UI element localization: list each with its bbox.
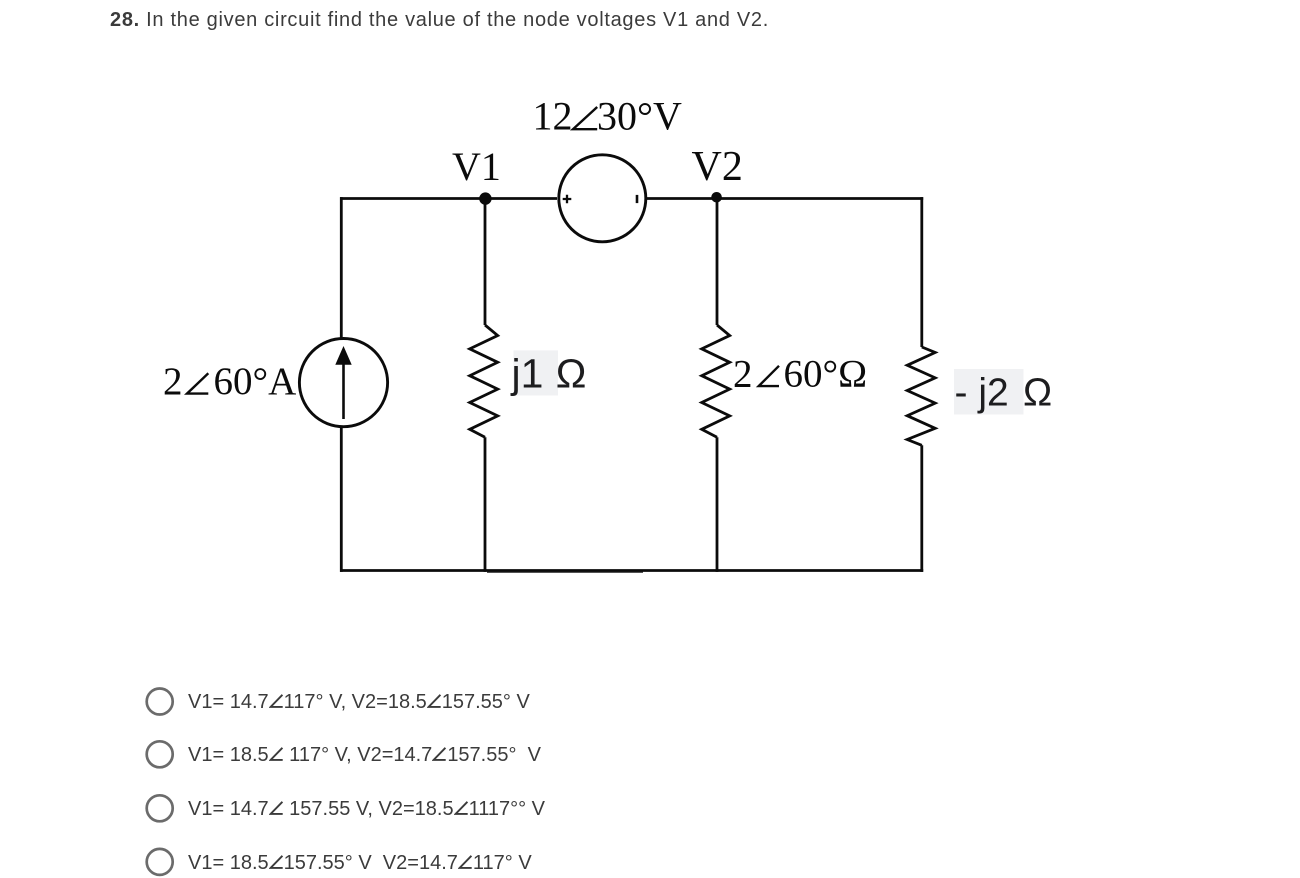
svg-text:V1: V1	[452, 144, 501, 189]
resistor j1 zigzag	[470, 325, 498, 437]
answer option A radio	[147, 689, 173, 715]
wire bottom rail	[340, 569, 923, 572]
current source I1 circle	[299, 339, 387, 427]
wire V1 column lower	[484, 437, 487, 572]
answer option C radio	[147, 795, 173, 821]
wire V1 column upper	[484, 199, 487, 326]
answer option D radio	[147, 849, 173, 875]
voltage source VS circle	[559, 155, 646, 242]
wire V2 column upper	[716, 199, 719, 326]
answer option B text	[188, 745, 541, 765]
wire bottom rail middle overlap segment	[487, 571, 643, 573]
svg-text:Ω: Ω	[556, 351, 587, 397]
voltage source minus tick	[636, 195, 639, 203]
resistor -j2 zigzag	[907, 347, 935, 445]
wire top rail left segment (node V1 to voltage source)	[340, 197, 557, 200]
wire left rail upper	[340, 197, 343, 339]
wire V2 column lower	[716, 437, 719, 572]
answer option D text	[188, 853, 532, 873]
wire right rail upper	[920, 197, 923, 347]
svg-text:60°A: 60°A	[214, 360, 297, 403]
current source arrow	[342, 358, 345, 419]
svg-text:- j2: - j2	[955, 372, 1009, 415]
wire right rail lower	[920, 445, 923, 572]
resistor 2∠60° zigzag	[702, 325, 730, 437]
value label j1 Ω highlight	[514, 350, 559, 395]
svg-text:30°V: 30°V	[597, 94, 682, 139]
svg-text:12: 12	[533, 94, 573, 139]
value label -j2 Ω highlight	[954, 369, 1024, 415]
svg-text:60°Ω: 60°Ω	[784, 353, 868, 396]
answer option A text	[188, 692, 530, 712]
question title	[110, 10, 769, 30]
answer option B radio	[147, 741, 173, 767]
wire left rail lower	[340, 427, 343, 572]
wire top rail right segment (voltage source to right rail)	[647, 197, 923, 200]
svg-text:2: 2	[163, 360, 183, 403]
svg-text:2: 2	[733, 353, 753, 396]
answer option C text	[188, 799, 545, 819]
node V2 junction dot	[711, 192, 722, 203]
svg-text:V2: V2	[692, 144, 743, 190]
svg-text:Ω: Ω	[1023, 372, 1052, 415]
node V1 junction dot	[479, 192, 491, 204]
svg-text:j1: j1	[511, 351, 544, 397]
voltage source plus sign	[563, 195, 572, 204]
